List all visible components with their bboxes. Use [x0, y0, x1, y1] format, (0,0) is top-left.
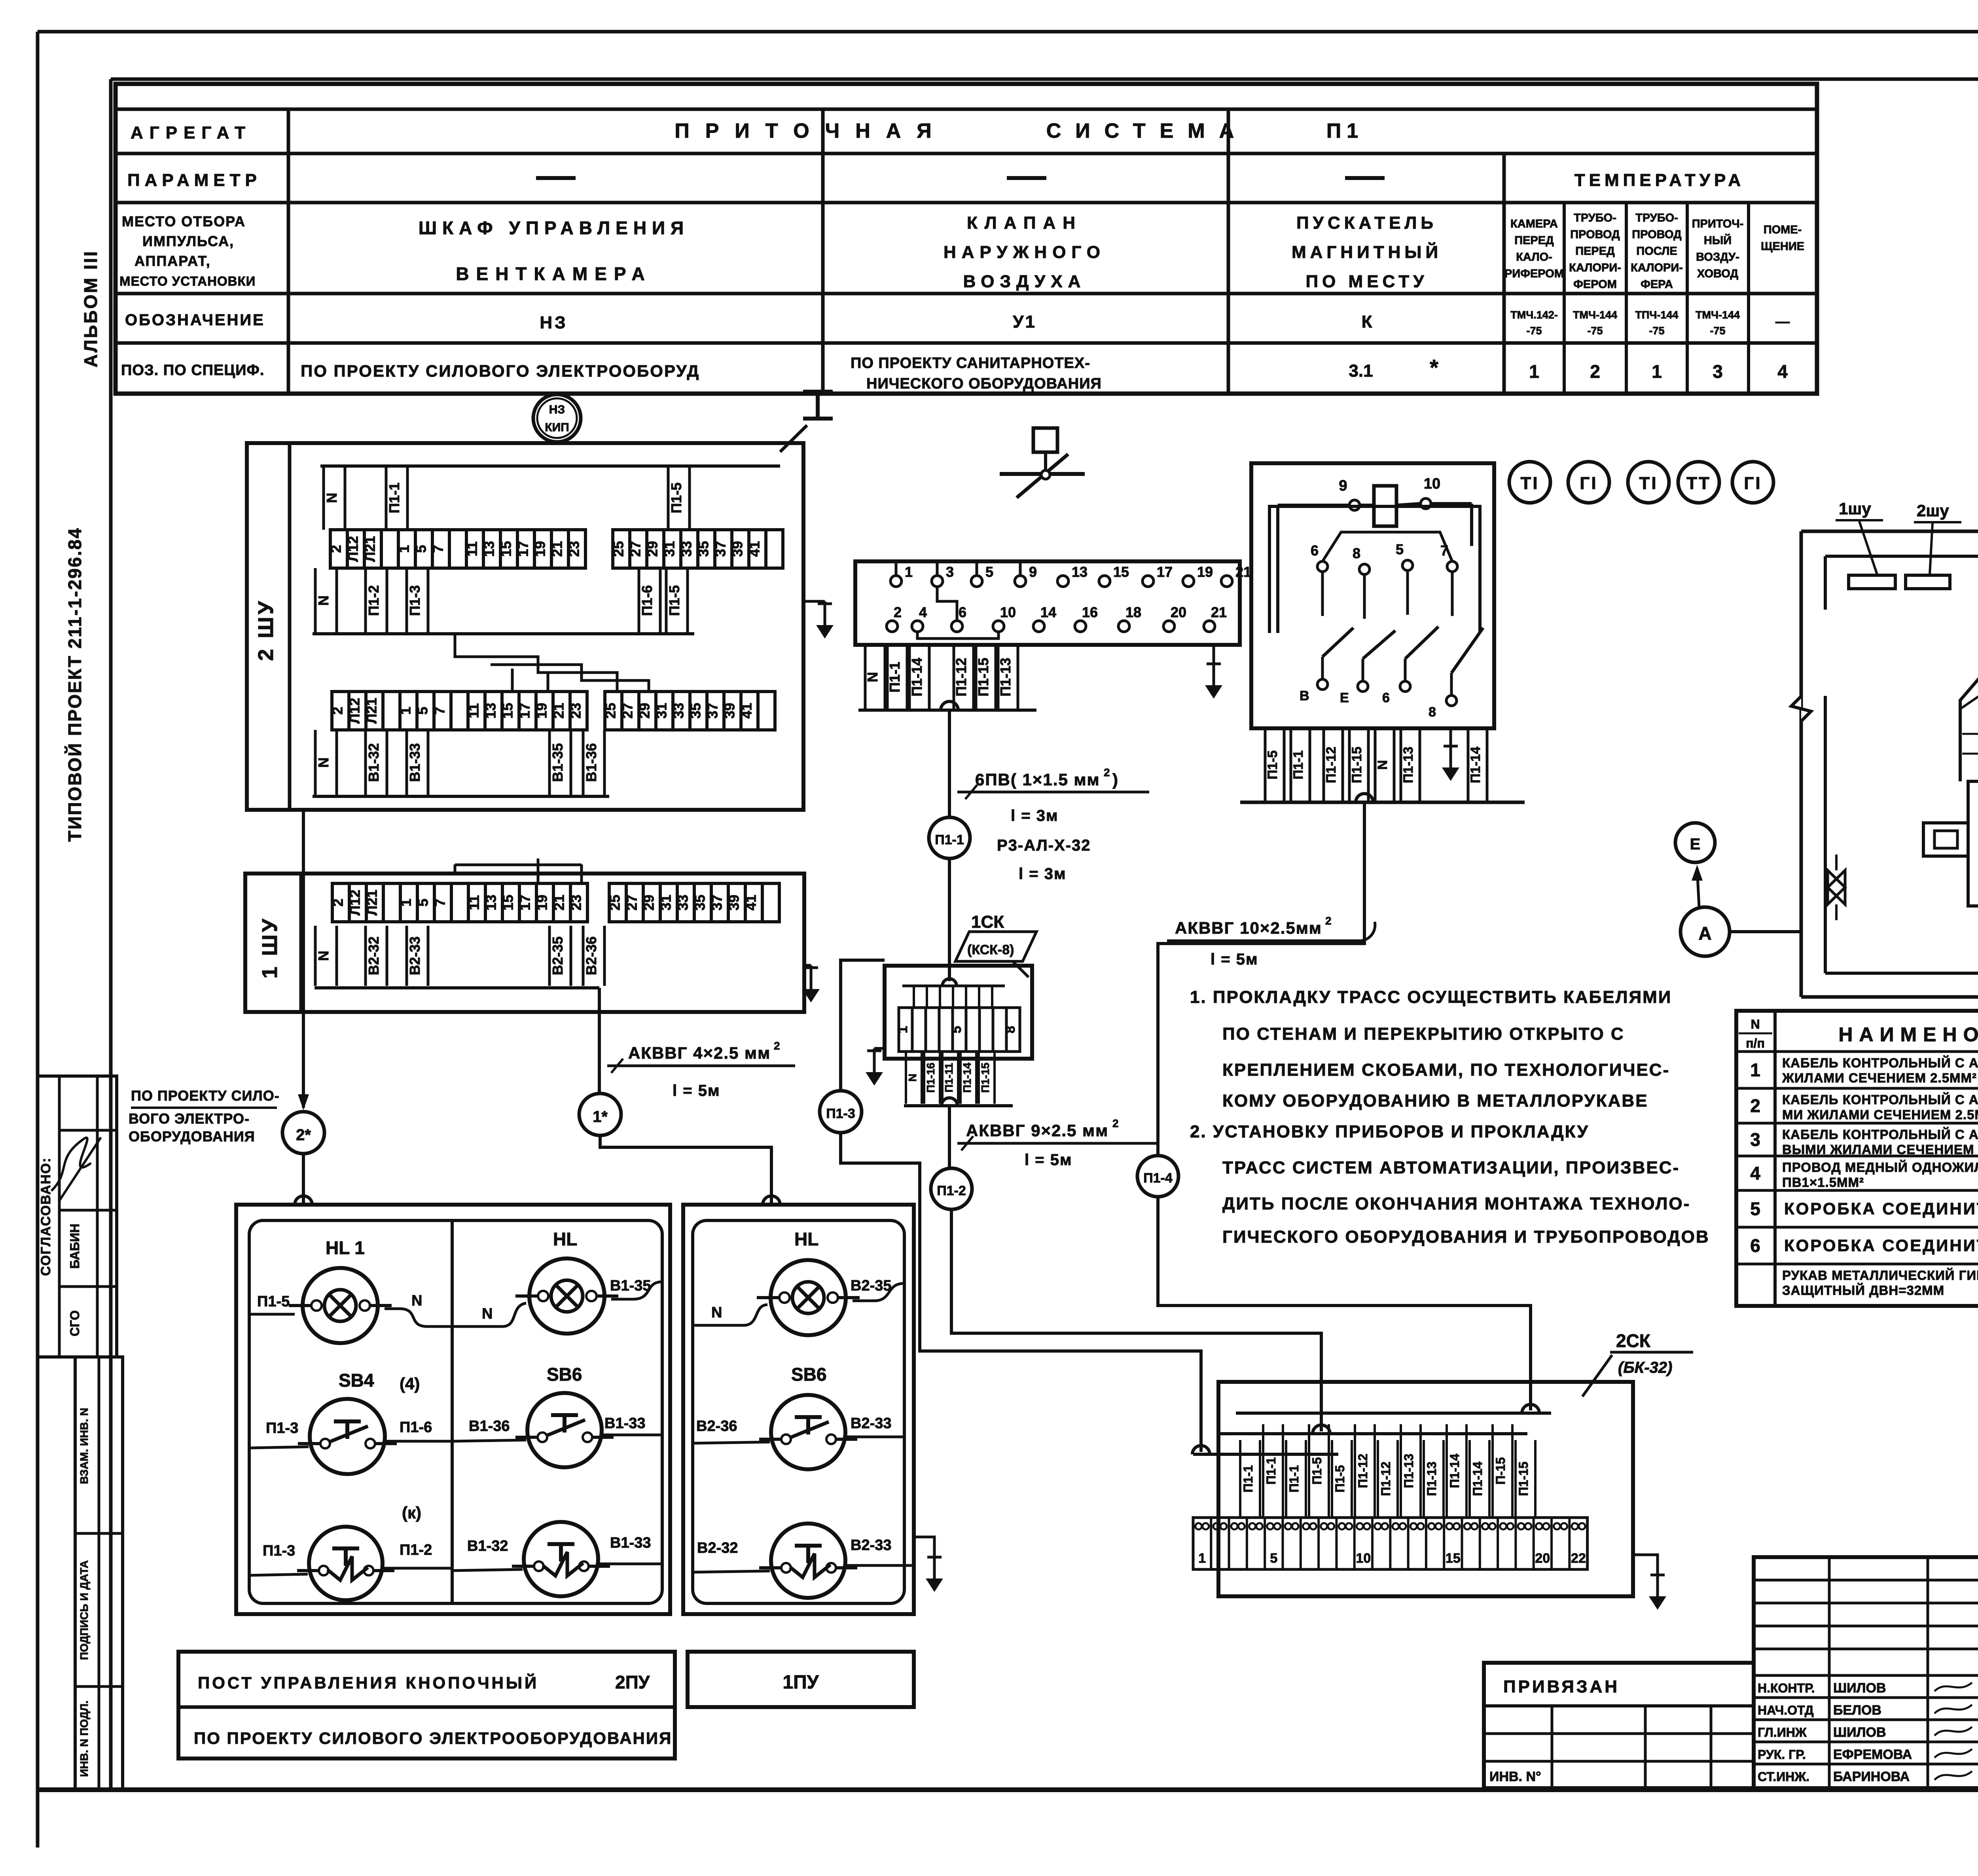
svg-text:П1-1: П1-1: [935, 832, 964, 847]
svg-text:ПРИТОЧНАЯ: ПРИТОЧНАЯ: [674, 119, 947, 142]
svg-text:КАБЕЛЬ КОНТРОЛЬНЫЙ С АЛЮМИНИЕ-: КАБЕЛЬ КОНТРОЛЬНЫЙ С АЛЮМИНИЕ-: [1782, 1127, 1978, 1142]
svg-text:4: 4: [1777, 361, 1788, 382]
svg-text:ТТ: ТТ: [1686, 474, 1711, 493]
svg-text:В2-36: В2-36: [583, 936, 599, 975]
svg-text:ОБОРУДОВАНИЯ: ОБОРУДОВАНИЯ: [129, 1128, 255, 1145]
svg-text:В1-33: В1-33: [610, 1535, 651, 1551]
svg-text:2: 2: [1750, 1095, 1760, 1116]
svg-text:5: 5: [1750, 1199, 1760, 1219]
svg-text:П1-3: П1-3: [407, 585, 423, 616]
svg-text:1: 1: [905, 564, 913, 580]
svg-text:ВЕНТКАМЕРА: ВЕНТКАМЕРА: [456, 263, 652, 284]
svg-text:ФЕРА: ФЕРА: [1641, 278, 1673, 291]
svg-text:9: 9: [1029, 564, 1037, 580]
svg-text:В1-32: В1-32: [467, 1538, 508, 1554]
svg-text:ВОЗДУХА: ВОЗДУХА: [963, 272, 1086, 291]
svg-text:N: N: [482, 1306, 493, 1322]
tab P1-1 top: [386, 466, 407, 530]
svg-text:21: 21: [551, 894, 567, 910]
svg-text:(к): (к): [402, 1503, 421, 1522]
svg-text:Р3-АЛ-Х-32: Р3-АЛ-Х-32: [997, 837, 1091, 854]
svg-text:ТЕМПЕРАТУРА: ТЕМПЕРАТУРА: [1574, 171, 1745, 190]
svg-text:В1-33: В1-33: [407, 743, 423, 782]
svg-text:ПРОВОД МЕДНЫЙ ОДНОЖИЛЬНЫЙ: ПРОВОД МЕДНЫЙ ОДНОЖИЛЬНЫЙ: [1782, 1160, 1978, 1175]
svg-text:6: 6: [1311, 542, 1319, 559]
svg-text:АЛЬБОМ III: АЛЬБОМ III: [80, 250, 101, 367]
svg-text:16: 16: [1082, 604, 1098, 620]
svg-text:В2-32: В2-32: [697, 1540, 738, 1556]
svg-text:ПОДПИСЬ И ДАТА: ПОДПИСЬ И ДАТА: [78, 1560, 90, 1660]
1ShU strip C cells: [330, 883, 587, 922]
svg-text:п/п: п/п: [1746, 1036, 1765, 1050]
svg-text:ТМЧ.142-: ТМЧ.142-: [1510, 309, 1558, 321]
svg-text:5: 5: [415, 898, 431, 906]
svg-text:2: 2: [1325, 915, 1332, 927]
svg-text:ТI: ТI: [1639, 474, 1658, 493]
starter contact arc top: [1322, 532, 1452, 561]
svg-text:1: 1: [396, 545, 412, 553]
node P1-2: [931, 1168, 972, 1209]
svg-text:Е: Е: [1690, 836, 1701, 853]
svg-text:ТМЧ-144: ТМЧ-144: [1696, 309, 1740, 321]
valve on left wall: [1828, 870, 1845, 904]
svg-text:П1-1: П1-1: [1264, 1457, 1278, 1484]
svg-text:17: 17: [1157, 564, 1173, 580]
svg-text:КЛАПАН: КЛАПАН: [967, 213, 1082, 233]
svg-text:21: 21: [1211, 604, 1227, 620]
svg-text:1ПУ: 1ПУ: [782, 1672, 819, 1693]
2ShU strip A bottom tabs: [315, 568, 337, 633]
svg-text:П1-14: П1-14: [909, 658, 925, 697]
wire P1-1 to 1SK: [948, 858, 951, 981]
svg-text:ЩЕНИЕ: ЩЕНИЕ: [1761, 240, 1804, 253]
svg-text:6ПВ( 1×1.5 мм: 6ПВ( 1×1.5 мм: [975, 770, 1100, 789]
svg-text:ПОСЛЕ: ПОСЛЕ: [1636, 245, 1677, 258]
node P1-3: [820, 1091, 862, 1133]
svg-text:ГI: ГI: [1580, 474, 1597, 493]
svg-text:П1-5: П1-5: [257, 1293, 290, 1310]
grounds near cabinets right edge: [803, 600, 825, 603]
svg-text:N: N: [315, 758, 332, 768]
svg-text:Н.КОНТР.: Н.КОНТР.: [1758, 1681, 1815, 1695]
svg-text:КИП: КИП: [545, 421, 569, 434]
jumper wires A-B: [455, 634, 617, 690]
starter tabs below: [1265, 728, 1284, 802]
svg-text:В2-36: В2-36: [696, 1418, 737, 1434]
top parameter table: [116, 84, 1817, 394]
svg-text:БАБИН: БАБИН: [68, 1224, 82, 1269]
svg-text:2: 2: [328, 545, 344, 553]
svg-text:10: 10: [1424, 476, 1440, 492]
svg-text:ПРИВЯЗАН: ПРИВЯЗАН: [1503, 1677, 1620, 1696]
KIP stamp circle: [533, 394, 581, 442]
svg-text:10: 10: [1356, 1551, 1371, 1566]
svg-text:ЖИЛАМИ СЕЧЕНИЕМ 2.5ММ²: ЖИЛАМИ СЕЧЕНИЕМ 2.5ММ²: [1782, 1071, 1977, 1085]
node 2*: [282, 1112, 324, 1154]
cabinet 1ShU on plan: [1849, 575, 1895, 589]
svg-text:23: 23: [568, 894, 584, 910]
svg-text:(БК-32): (БК-32): [1618, 1359, 1672, 1376]
svg-text:37: 37: [712, 541, 729, 557]
svg-text:20: 20: [1171, 604, 1186, 620]
svg-text:Л12: Л12: [345, 536, 361, 562]
svg-text:l = 3м: l = 3м: [1019, 865, 1067, 883]
2ShU strip A bottom bus: [313, 632, 694, 635]
svg-text:П1-2: П1-2: [937, 1183, 966, 1198]
title block: revision grid: [1754, 1557, 1978, 1788]
tab P1-5 top: [668, 466, 690, 530]
svg-text:-75: -75: [1587, 325, 1603, 337]
svg-text:РУК. ГР.: РУК. ГР.: [1758, 1747, 1806, 1762]
svg-text:П1-5: П1-5: [1310, 1457, 1324, 1484]
svg-text:ОБОЗНАЧЕНИЕ: ОБОЗНАЧЕНИЕ: [125, 311, 265, 329]
svg-text:9: 9: [1339, 478, 1347, 494]
svg-text:1: 1: [1529, 361, 1539, 382]
svg-text:6: 6: [1750, 1236, 1760, 1256]
node P1-1: [929, 817, 970, 858]
2PU lower button col2: [524, 1522, 598, 1596]
svg-text:2: 2: [774, 1040, 780, 1052]
svg-text:15: 15: [1446, 1551, 1461, 1566]
svg-text:КОРОБКА СОЕДИНИТЕЛЬНАЯ: КОРОБКА СОЕДИНИТЕЛЬНАЯ: [1784, 1200, 1978, 1218]
svg-text:П1-1: П1-1: [1291, 750, 1306, 780]
svg-text:ТРАСС СИСТЕМ АВТОМАТИЗАЦИИ, ПР: ТРАСС СИСТЕМ АВТОМАТИЗАЦИИ, ПРОИЗВЕС-: [1222, 1158, 1680, 1177]
magnetic starter K box: [1251, 463, 1494, 728]
svg-text:19: 19: [1197, 564, 1213, 580]
svg-text:ПУСКАТЕЛЬ: ПУСКАТЕЛЬ: [1296, 213, 1437, 233]
svg-text:SB6: SB6: [547, 1364, 582, 1385]
svg-text:ПЕРЕД: ПЕРЕД: [1514, 234, 1554, 247]
svg-text:41: 41: [746, 541, 763, 557]
2SK bus lines: [1236, 1412, 1551, 1415]
svg-text:ПО СТЕНАМ И ПЕРЕКРЫТИЮ ОТКРЫТО: ПО СТЕНАМ И ПЕРЕКРЫТИЮ ОТКРЫТО С: [1222, 1024, 1625, 1044]
svg-text:РИФЕРОМ: РИФЕРОМ: [1504, 267, 1564, 280]
svg-text:П1-12: П1-12: [953, 658, 969, 697]
svg-text:41: 41: [739, 703, 755, 718]
parts list table: [1736, 1011, 1978, 1306]
svg-text:Л12: Л12: [347, 698, 363, 724]
tab N top: [324, 466, 345, 530]
svg-text:2: 2: [894, 604, 902, 620]
approval stamp block (Soglasovano): [38, 1076, 117, 1357]
svg-text:ФЕРОМ: ФЕРОМ: [1573, 278, 1617, 291]
svg-text:-75: -75: [1710, 325, 1725, 337]
svg-text:ВЗАМ. ИНВ. N: ВЗАМ. ИНВ. N: [78, 1408, 90, 1484]
svg-text:В1-36: В1-36: [583, 743, 599, 782]
svg-text:П1-3: П1-3: [826, 1106, 855, 1121]
svg-text:11: 11: [466, 895, 482, 910]
svg-text:В1-35: В1-35: [549, 743, 566, 782]
svg-text:СИСТЕМА: СИСТЕМА: [1046, 119, 1249, 142]
svg-text:19: 19: [534, 703, 550, 718]
svg-text:АППАРАТ,: АППАРАТ,: [135, 253, 211, 269]
svg-text:13: 13: [483, 703, 499, 718]
svg-text:КРЕПЛЕНИЕМ СКОБАМИ, ПО ТЕХНОЛО: КРЕПЛЕНИЕМ СКОБАМИ, ПО ТЕХНОЛОГИЧЕС-: [1222, 1060, 1670, 1080]
svg-text:8: 8: [1353, 545, 1360, 561]
svg-text:5: 5: [415, 707, 431, 714]
svg-text:ПО ПРОЕКТУ САНИТАРНОТЕХ-: ПО ПРОЕКТУ САНИТАРНОТЕХ-: [851, 355, 1090, 371]
svg-text:ЕФРЕМОВА: ЕФРЕМОВА: [1833, 1747, 1912, 1762]
svg-text:П1-11: П1-11: [943, 1063, 955, 1093]
svg-text:25: 25: [602, 703, 619, 718]
svg-text:1: 1: [398, 707, 414, 714]
svg-text:НАРУЖНОГО: НАРУЖНОГО: [944, 243, 1106, 262]
svg-text:П1-12: П1-12: [1356, 1453, 1370, 1488]
node 1*: [579, 1093, 621, 1135]
svg-text:l = 5м: l = 5м: [673, 1082, 720, 1099]
svg-text:29: 29: [637, 703, 653, 718]
svg-text:15: 15: [500, 703, 516, 718]
svg-text:2шу: 2шу: [1917, 501, 1949, 520]
svg-text:5: 5: [1270, 1551, 1277, 1566]
svg-text:18: 18: [1125, 604, 1141, 620]
svg-text:КАЛОРИ-: КАЛОРИ-: [1569, 262, 1621, 274]
svg-text:7: 7: [432, 898, 448, 906]
fan duct column: [1968, 781, 1978, 906]
svg-text:ШИЛОВ: ШИЛОВ: [1833, 1725, 1886, 1740]
svg-text:41: 41: [743, 894, 759, 910]
starter inner enclosure: [1269, 506, 1480, 633]
junction box 2SK: [1218, 1382, 1633, 1596]
svg-text:П1-12: П1-12: [1324, 747, 1339, 783]
svg-text:БЕЛОВ: БЕЛОВ: [1833, 1703, 1881, 1718]
svg-text:ПРИТОЧ-: ПРИТОЧ-: [1692, 218, 1744, 230]
svg-text:2: 2: [1112, 1117, 1119, 1129]
junction box 1SK: [885, 966, 1032, 1059]
svg-text:7: 7: [432, 707, 448, 714]
svg-text:АКВВГ 4×2.5 мм: АКВВГ 4×2.5 мм: [628, 1044, 771, 1062]
svg-text:HL 1: HL 1: [326, 1237, 365, 1258]
svg-text:1 ШУ: 1 ШУ: [258, 917, 282, 979]
svg-text:33: 33: [671, 703, 687, 718]
svg-text:SB4: SB4: [339, 1370, 374, 1391]
svg-text:17: 17: [517, 894, 533, 910]
svg-text:1: 1: [1750, 1060, 1760, 1080]
svg-text:ПОСТ УПРАВЛЕНИЯ КНОПОЧНЫЙ: ПОСТ УПРАВЛЕНИЯ КНОПОЧНЫЙ: [198, 1673, 539, 1692]
svg-text:8: 8: [1429, 705, 1436, 720]
svg-text:ПО МЕСТУ: ПО МЕСТУ: [1305, 272, 1428, 291]
cabinet 2ShU on plan: [1906, 575, 1950, 589]
wire 1ShU bus to node 1*: [598, 988, 601, 1093]
svg-text:П1-15: П1-15: [975, 658, 991, 697]
svg-text:17: 17: [515, 541, 531, 557]
svg-text:l = 5м: l = 5м: [1025, 1151, 1072, 1169]
pushbutton post caption table: [178, 1652, 675, 1759]
signature squiggle: [51, 1138, 91, 1191]
svg-text:КАЛО-: КАЛО-: [1516, 251, 1552, 263]
svg-text:21: 21: [549, 541, 565, 557]
svg-text:П1-1: П1-1: [386, 483, 402, 514]
svg-text:3: 3: [1713, 361, 1723, 382]
wire starter bus to node P1-4: [1356, 794, 1373, 802]
svg-text:П1-2: П1-2: [366, 585, 382, 616]
svg-text:ПО ПРОЕКТУ СИЛОВОГО ЭЛЕКТРООБО: ПО ПРОЕКТУ СИЛОВОГО ЭЛЕКТРООБОРУДОВАНИЯ: [194, 1729, 672, 1747]
svg-text:1: 1: [1198, 1551, 1206, 1566]
svg-text:6: 6: [1382, 690, 1390, 705]
svg-text:СТ.ИНЖ.: СТ.ИНЖ.: [1758, 1770, 1809, 1784]
connector bottom terminals: [887, 604, 1227, 632]
svg-text:КАБЕЛЬ КОНТРОЛЬНЫЙ С АЛЮМИНИЕВ: КАБЕЛЬ КОНТРОЛЬНЫЙ С АЛЮМИНИЕВЫМИ: [1782, 1055, 1978, 1070]
svg-text:ИНВ. N°: ИНВ. N°: [1489, 1769, 1541, 1784]
svg-text:2: 2: [330, 898, 346, 906]
svg-text:П1-13: П1-13: [1402, 1453, 1416, 1488]
svg-text:П1-14: П1-14: [961, 1062, 973, 1093]
svg-text:ЗАЩИТНЫЙ ДВН=32ММ: ЗАЩИТНЫЙ ДВН=32ММ: [1782, 1283, 1944, 1298]
svg-text:ПРОВОД: ПРОВОД: [1570, 228, 1620, 241]
connector tabs below: [864, 645, 885, 709]
svg-text:23: 23: [566, 541, 582, 557]
svg-text:В2-33: В2-33: [851, 1415, 892, 1432]
svg-text:МАГНИТНЫЙ: МАГНИТНЫЙ: [1292, 242, 1442, 262]
svg-text:В2-33: В2-33: [407, 936, 423, 975]
connector top terminals: [890, 564, 1251, 587]
svg-text:1: 1: [1652, 361, 1662, 382]
svg-text:П1-14: П1-14: [1468, 747, 1483, 783]
2ShU strip A top feeder line: [320, 464, 780, 468]
svg-text:23: 23: [568, 703, 584, 718]
svg-text:В1-35: В1-35: [610, 1277, 651, 1294]
svg-text:П1-5: П1-5: [668, 483, 684, 514]
connector top stubs: [896, 561, 1020, 576]
plan inner walls: [1825, 555, 1978, 558]
sheet outer trim border: [38, 30, 1978, 34]
wire 2* to 2PU box: [302, 1154, 305, 1205]
2SK tabs: [1240, 1440, 1260, 1518]
svg-text:2СК: 2СК: [1616, 1330, 1651, 1351]
svg-text:ТРУБО-: ТРУБО-: [1574, 212, 1616, 224]
svg-text:5: 5: [1396, 541, 1404, 557]
starter contacts: [1300, 541, 1483, 720]
svg-text:33: 33: [675, 894, 691, 910]
1ShU strip jumpers: [455, 858, 582, 883]
svg-text:N: N: [411, 1292, 422, 1309]
connector internal jumpers: [937, 587, 957, 621]
svg-text:13: 13: [1072, 564, 1088, 580]
svg-text:П1-1: П1-1: [1241, 1465, 1255, 1492]
pushbutton post 2PU box: [236, 1205, 670, 1614]
stamp column (inv no / signature / date): [75, 1357, 123, 1789]
svg-text:НЫЙ: НЫЙ: [1704, 233, 1732, 247]
connector bottom bus: [858, 709, 1036, 712]
svg-text:ДИТЬ ПОСЛЕ ОКОНЧАНИЯ МОНТАЖА Т: ДИТЬ ПОСЛЕ ОКОНЧАНИЯ МОНТАЖА ТЕХНОЛО-: [1222, 1194, 1690, 1213]
valve U1 symbol (damper): [1033, 428, 1057, 452]
svg-text:П1-5: П1-5: [1265, 750, 1280, 780]
svg-text:(КСК-8): (КСК-8): [967, 942, 1014, 957]
svg-text:29: 29: [641, 894, 657, 910]
svg-text:l = 3м: l = 3м: [1011, 807, 1059, 824]
svg-text:N: N: [315, 951, 332, 961]
pushbutton post 1PU box: [683, 1205, 914, 1614]
svg-text:СГО: СГО: [68, 1310, 82, 1336]
2ShU strip B bottom bus: [313, 795, 609, 798]
svg-text:П1-6: П1-6: [400, 1419, 432, 1436]
svg-text:П1-15: П1-15: [1516, 1461, 1531, 1496]
svg-text:МЕСТО УСТАНОВКИ: МЕСТО УСТАНОВКИ: [119, 274, 256, 288]
svg-text:N: N: [1375, 760, 1390, 770]
svg-text:*: *: [1430, 355, 1438, 380]
svg-text:19: 19: [532, 541, 548, 557]
svg-text:2ПУ: 2ПУ: [615, 1672, 650, 1692]
starter ground: [1449, 728, 1452, 744]
svg-text:35: 35: [688, 703, 704, 718]
svg-text:15: 15: [500, 894, 516, 910]
wire P1-2 to 2SK: [951, 1209, 1321, 1431]
node P1-1 wire from connector: [941, 701, 958, 710]
2ShU strip A cells: [328, 530, 585, 568]
1PU ground: [914, 1537, 934, 1555]
svg-text:4: 4: [1750, 1163, 1760, 1184]
svg-text:П1-13: П1-13: [1401, 747, 1416, 783]
svg-text:П1-16: П1-16: [925, 1063, 937, 1093]
svg-text:33: 33: [678, 541, 695, 557]
svg-text:2. УСТАНОВКУ ПРИБОРОВ И ПРОКЛ: 2. УСТАНОВКУ ПРИБОРОВ И ПРОКЛАДКУ: [1190, 1122, 1589, 1141]
svg-text:ВОГО ЭЛЕКТРО-: ВОГО ЭЛЕКТРО-: [129, 1110, 250, 1127]
svg-text:В: В: [1300, 688, 1309, 703]
svg-text:21: 21: [551, 703, 567, 718]
svg-text:П1-6: П1-6: [639, 585, 655, 616]
svg-text:К: К: [1362, 312, 1372, 332]
svg-text:П1-12: П1-12: [1379, 1461, 1393, 1496]
svg-text:11: 11: [466, 703, 482, 718]
svg-text:ПО ПРОЕКТУ СИЛО-: ПО ПРОЕКТУ СИЛО-: [131, 1088, 280, 1104]
svg-text:5: 5: [985, 564, 993, 580]
svg-text:ТРУБО-: ТРУБО-: [1635, 212, 1678, 224]
svg-text:1. ПРОКЛАДКУ ТРАСС ОСУЩЕСТВИТ: 1. ПРОКЛАДКУ ТРАСС ОСУЩЕСТВИТЬ КАБЕЛЯМИ: [1190, 987, 1672, 1007]
svg-text:N: N: [315, 595, 332, 606]
svg-text:13: 13: [483, 894, 499, 910]
svg-text:HL: HL: [553, 1229, 577, 1249]
svg-text:АГРЕГАТ: АГРЕГАТ: [131, 123, 252, 142]
svg-text:l = 5м: l = 5м: [1211, 951, 1258, 968]
node circle A: [1681, 907, 1730, 956]
svg-text:КАЛОРИ-: КАЛОРИ-: [1631, 262, 1683, 274]
svg-text:РУКАВ МЕТАЛЛИЧЕСКИЙ ГИБКИЙ: РУКАВ МЕТАЛЛИЧЕСКИЙ ГИБКИЙ: [1782, 1268, 1978, 1283]
svg-text:Л21: Л21: [364, 698, 380, 724]
svg-text:5: 5: [949, 1026, 964, 1033]
svg-text:27: 27: [627, 541, 644, 557]
svg-text:ПОМЕ-: ПОМЕ-: [1764, 224, 1802, 236]
svg-text:Л21: Л21: [364, 890, 380, 915]
control cabinet 2ShU box: [247, 443, 803, 810]
svg-text:ГЛ.ИНЖ: ГЛ.ИНЖ: [1758, 1725, 1807, 1740]
svg-text:П1-3: П1-3: [263, 1542, 295, 1559]
svg-text:П-15: П-15: [1493, 1457, 1508, 1484]
svg-text:П1-1: П1-1: [887, 662, 903, 693]
svg-text:П1-13: П1-13: [1425, 1461, 1439, 1496]
title block: privyazan section: [1484, 1663, 1754, 1788]
inner drawing frame: [111, 78, 1978, 81]
svg-text:П1: П1: [1326, 119, 1364, 142]
svg-text:20: 20: [1535, 1551, 1550, 1566]
2ShU strip B bottom tabs: [315, 730, 337, 795]
svg-text:31: 31: [654, 703, 670, 718]
KIP connector block: [855, 561, 1240, 645]
svg-text:1: 1: [398, 898, 414, 906]
svg-text:ВОЗДУ-: ВОЗДУ-: [1696, 251, 1739, 263]
svg-text:37: 37: [709, 894, 725, 910]
svg-text:П1-1: П1-1: [1287, 1465, 1301, 1492]
svg-text:2: 2: [1590, 361, 1600, 382]
svg-text:П1-3: П1-3: [266, 1420, 298, 1436]
svg-text:ПРОВОД: ПРОВОД: [1632, 228, 1682, 241]
svg-text:): ): [1112, 770, 1118, 789]
svg-text:25: 25: [610, 541, 627, 557]
svg-text:Л12: Л12: [347, 890, 363, 915]
svg-text:N: N: [906, 1074, 919, 1082]
svg-text:5: 5: [413, 545, 429, 553]
svg-text:П1-5: П1-5: [666, 585, 682, 616]
svg-text:ТПЧ-144: ТПЧ-144: [1635, 309, 1679, 321]
